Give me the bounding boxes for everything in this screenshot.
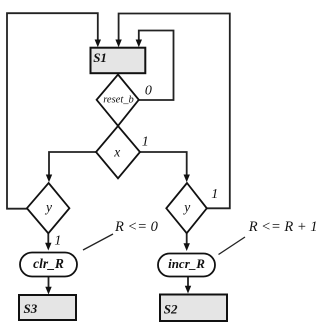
svg-text:1: 1 (142, 135, 149, 150)
svg-text:y: y (182, 200, 190, 215)
svg-text:R <= R + 1: R <= R + 1 (248, 219, 318, 235)
svg-text:1: 1 (211, 187, 218, 202)
svg-text:1: 1 (54, 234, 61, 249)
svg-text:reset_b: reset_b (103, 95, 134, 106)
svg-text:R <= 0: R <= 0 (114, 219, 159, 235)
svg-text:clr_R: clr_R (33, 256, 64, 271)
svg-text:incr_R: incr_R (168, 256, 205, 271)
svg-text:x: x (113, 145, 120, 160)
svg-text:y: y (44, 200, 52, 215)
svg-text:S2: S2 (164, 302, 178, 317)
svg-text:S1: S1 (93, 50, 107, 65)
svg-text:S3: S3 (24, 301, 38, 316)
svg-text:0: 0 (145, 84, 152, 99)
